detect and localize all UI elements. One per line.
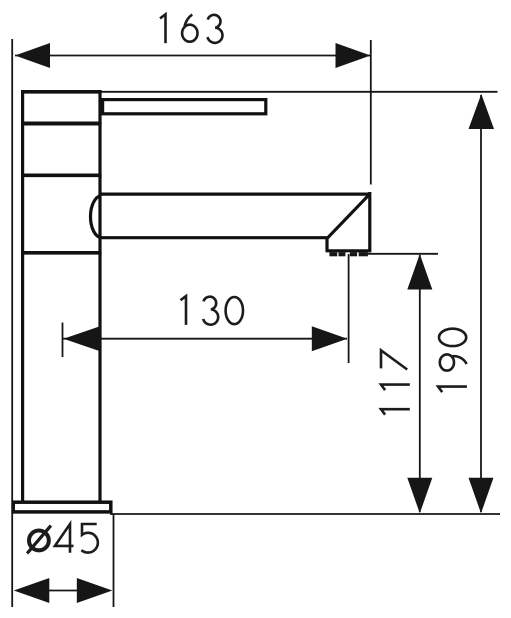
arrow left d45: [14, 578, 50, 603]
faucet column right edge: [98, 90, 101, 500]
arrow down 190: [469, 478, 494, 514]
arrow right d45: [77, 578, 113, 603]
extension line at aerator level: [363, 253, 438, 255]
column divider 2: [21, 174, 102, 178]
arrow left 130: [64, 326, 101, 351]
spout tip left edge: [325, 237, 328, 250]
right extension line for 130: [348, 254, 350, 363]
arrow right 130: [312, 326, 348, 351]
extension line at base bottom level: [110, 513, 500, 515]
dimension line diameter 45: [48, 590, 78, 592]
dimension line 190: [480, 95, 482, 512]
arrow up 117: [407, 254, 432, 290]
top extension line at faucet top level: [100, 91, 498, 93]
dimension line 130: [63, 338, 347, 340]
label 190: [438, 329, 467, 392]
right extension line for 163: [370, 40, 372, 185]
spout left rounded cap: [90, 196, 101, 238]
label 163: [160, 14, 222, 43]
spout diagonal cut: [327, 194, 369, 238]
spout tip bottom: [326, 249, 372, 252]
arrow right 163: [336, 43, 371, 68]
centerline tick for 130: [62, 323, 64, 358]
arrow up 190: [469, 94, 495, 129]
column divider 3: [21, 251, 102, 255]
left extension line: [11, 39, 13, 607]
base plate: [13, 502, 111, 512]
faucet column left edge: [21, 90, 24, 500]
dimension line 117: [419, 255, 421, 512]
extension line below base right: [113, 514, 115, 608]
handle lever: [103, 100, 266, 114]
label diameter 45: [27, 524, 98, 553]
aerator teeth: [329, 252, 337, 256]
column divider 1: [21, 122, 102, 126]
spout top edge: [100, 193, 369, 196]
label 117: [381, 350, 410, 414]
label 130: [181, 296, 244, 325]
faucet column top edge: [21, 90, 102, 94]
arrow down 117: [407, 478, 432, 514]
spout right edge: [368, 192, 371, 251]
arrow left 163: [15, 43, 50, 68]
spout bottom edge: [100, 236, 327, 239]
dimension line 163: [15, 55, 370, 57]
